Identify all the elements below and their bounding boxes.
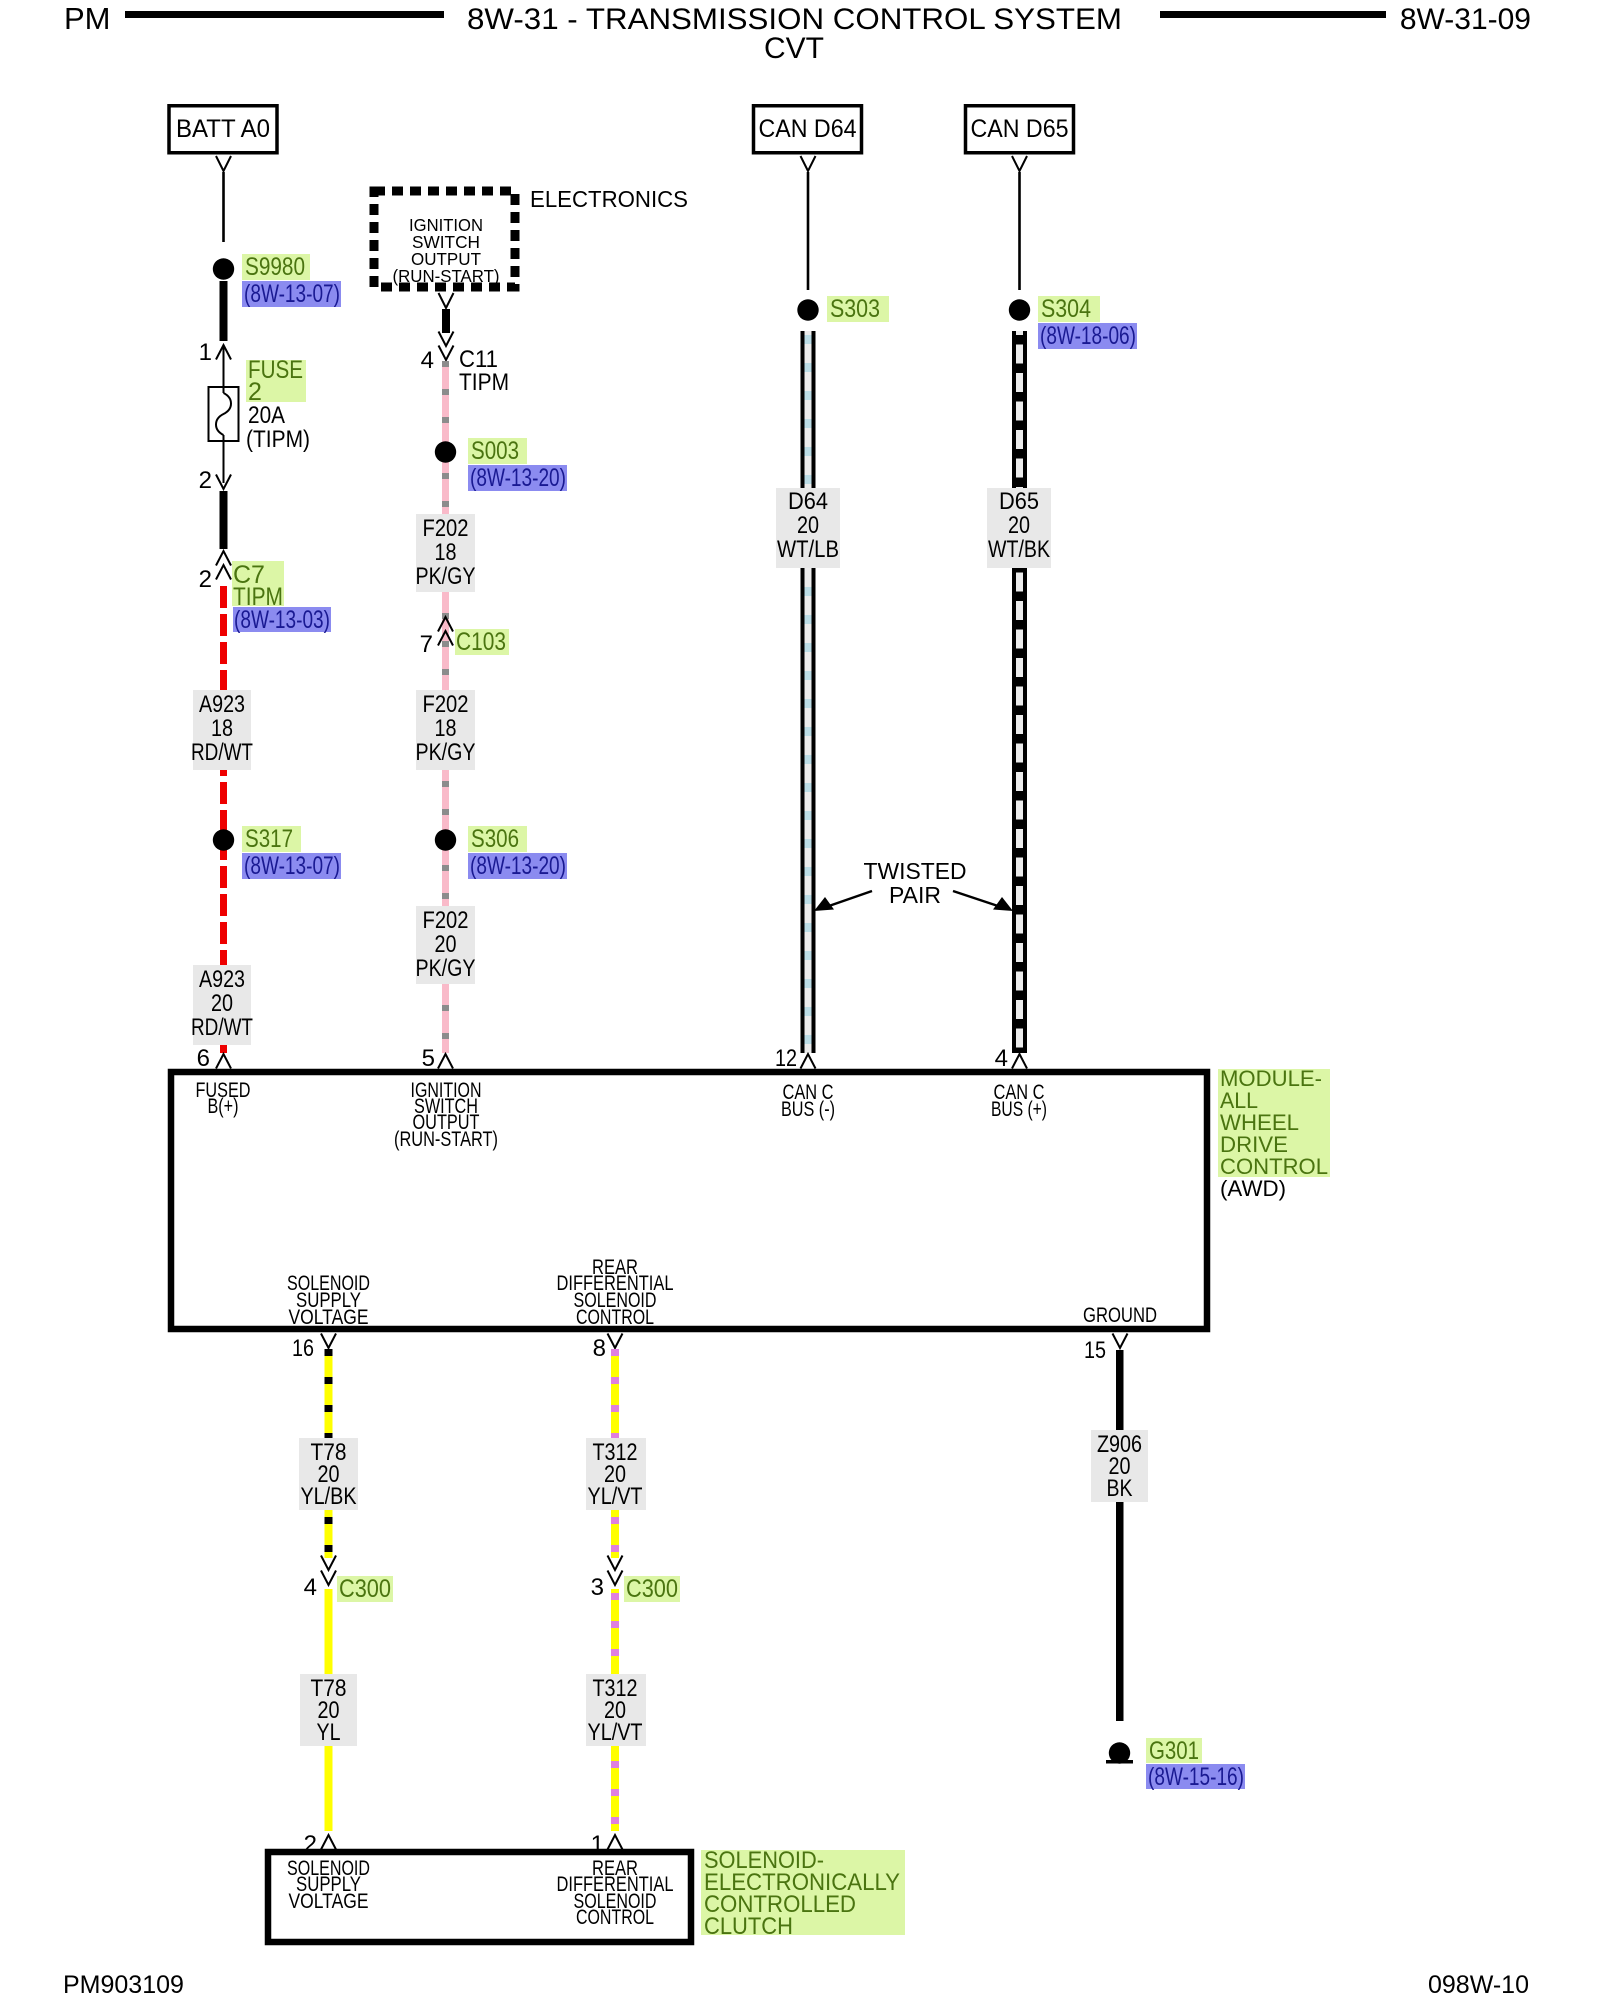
svg-text:S304: S304 xyxy=(1041,295,1091,323)
svg-text:TIPM: TIPM xyxy=(459,369,509,396)
svg-text:BK: BK xyxy=(1107,1475,1133,1502)
splice S304 xyxy=(1009,295,1137,350)
svg-text:YL/VT: YL/VT xyxy=(588,1483,643,1510)
svg-text:S306: S306 xyxy=(471,825,519,853)
svg-text:PK/GY: PK/GY xyxy=(416,739,476,766)
svg-text:5: 5 xyxy=(422,1045,435,1072)
label D65 20 WT/BK xyxy=(987,488,1051,568)
svg-text:YL/BK: YL/BK xyxy=(301,1483,357,1510)
svg-text:18: 18 xyxy=(435,715,457,742)
wire D64 20 WT/LB (white with light-blue tracer, twisted pair) xyxy=(801,331,816,1053)
svg-text:PM903109: PM903109 xyxy=(63,1971,184,1999)
svg-text:18: 18 xyxy=(435,539,457,566)
clutch name label SOLENOID- ELECTRONICALLY CONTROLLED CLUTCH xyxy=(701,1847,905,1940)
svg-text:S317: S317 xyxy=(245,825,293,853)
label A923 20 RD/WT xyxy=(191,965,253,1045)
svg-text:(RUN-START): (RUN-START) xyxy=(393,266,500,286)
connector CAN D65 xyxy=(966,106,1074,153)
svg-text:TWISTED: TWISTED xyxy=(864,858,967,884)
pin 4 CAN C BUS (+) xyxy=(995,1045,1027,1072)
svg-text:(AWD): (AWD) xyxy=(1220,1176,1286,1201)
svg-text:F202: F202 xyxy=(423,691,469,718)
splice S303 xyxy=(797,295,889,323)
svg-text:D64: D64 xyxy=(788,488,828,515)
svg-text:PK/GY: PK/GY xyxy=(416,563,476,590)
svg-text:G301: G301 xyxy=(1149,1737,1199,1765)
connector BATT A0 xyxy=(169,106,277,153)
svg-text:C300: C300 xyxy=(339,1575,391,1603)
svg-text:F202: F202 xyxy=(423,515,469,542)
svg-text:(8W-13-07): (8W-13-07) xyxy=(244,852,340,880)
connector C300 pin 4 xyxy=(304,1556,393,1604)
svg-text:VOLTAGE: VOLTAGE xyxy=(289,1306,369,1329)
pin 8 REAR DIFFERENTIAL SOLENOID CONTROL xyxy=(593,1334,623,1363)
pin 2 of fuse xyxy=(199,467,231,494)
label Z906 20 BK xyxy=(1091,1430,1148,1502)
ground G301 xyxy=(1106,1737,1245,1791)
pin 12 CAN C BUS (-) xyxy=(775,1045,816,1072)
pin 2 SOLENOID SUPPLY VOLTAGE (clutch) xyxy=(304,1831,336,1858)
splice S317 xyxy=(213,825,341,880)
label D64 20 WT/LB xyxy=(776,488,840,568)
wire BATT A0 down-lead xyxy=(216,156,231,242)
label F202 18 PK/GY (second) xyxy=(416,690,476,770)
label A923 18 RD/WT xyxy=(191,690,253,770)
svg-text:CVT: CVT xyxy=(764,32,824,65)
svg-text:20: 20 xyxy=(435,931,457,958)
splice S003 xyxy=(435,437,567,492)
footer xyxy=(63,1971,1529,1999)
svg-text:F202: F202 xyxy=(423,907,469,934)
splice S9980 xyxy=(213,253,341,308)
svg-text:20: 20 xyxy=(1008,512,1030,539)
svg-text:15: 15 xyxy=(1084,1337,1106,1364)
svg-text:WT/LB: WT/LB xyxy=(777,536,839,563)
svg-text:CAN D65: CAN D65 xyxy=(971,115,1069,143)
wire T312 20 YL/VT (lower) xyxy=(611,1589,619,1831)
svg-text:20: 20 xyxy=(211,990,233,1017)
svg-text:BUS (+): BUS (+) xyxy=(991,1098,1047,1121)
wire F202 PK/GY (pink with gray tracer) xyxy=(442,361,449,1053)
svg-text:A923: A923 xyxy=(199,691,245,718)
svg-text:YL/VT: YL/VT xyxy=(588,1719,643,1746)
svg-text:D65: D65 xyxy=(999,488,1039,515)
svg-text:S003: S003 xyxy=(471,437,519,465)
svg-text:098W-10: 098W-10 xyxy=(1428,1971,1529,1999)
svg-text:RD/WT: RD/WT xyxy=(191,739,253,766)
connector C103 pin 7 xyxy=(420,617,509,658)
wire CAN D65 down-lead xyxy=(1012,156,1027,290)
svg-text:3: 3 xyxy=(591,1574,604,1601)
splice S306 xyxy=(435,825,567,880)
electronics node: IGNITION SWITCH OUTPUT (RUN-START) xyxy=(374,186,688,287)
svg-text:RD/WT: RD/WT xyxy=(191,1014,253,1041)
pin 1 REAR DIFFERENTIAL SOLENOID CONTROL (clutch) xyxy=(591,1831,623,1858)
wire T78 YL/BK (yellow with black tracer) xyxy=(325,1349,333,1558)
wire fuse to connector C7 xyxy=(220,491,228,549)
connector C11 TIPM pin 4 xyxy=(421,332,509,397)
svg-text:2: 2 xyxy=(199,566,212,593)
pin 6 FUSED B(+) xyxy=(197,1045,231,1072)
wire S9980 to fuse pin 1 xyxy=(220,281,228,341)
solenoid: electronically controlled clutch (box) xyxy=(268,1852,691,1942)
connector CAN D64 xyxy=(754,106,862,153)
svg-text:CONTROL: CONTROL xyxy=(576,1306,654,1329)
svg-text:GROUND: GROUND xyxy=(1083,1304,1157,1327)
svg-text:B(+): B(+) xyxy=(208,1095,239,1118)
svg-text:(8W-13-20): (8W-13-20) xyxy=(470,852,566,880)
label F202 20 PK/GY xyxy=(416,906,476,984)
svg-text:(RUN-START): (RUN-START) xyxy=(394,1128,498,1151)
label F202 18 PK/GY xyxy=(416,514,476,592)
wire Z906 20 BK (black) xyxy=(1116,1350,1124,1721)
svg-text:VOLTAGE: VOLTAGE xyxy=(289,1890,369,1913)
svg-text:20: 20 xyxy=(797,512,819,539)
svg-text:BATT A0: BATT A0 xyxy=(176,115,270,143)
svg-text:12: 12 xyxy=(775,1045,797,1072)
connector C300 pin 3 xyxy=(591,1556,680,1604)
svg-text:16: 16 xyxy=(292,1335,314,1362)
svg-text:PAIR: PAIR xyxy=(889,882,941,908)
svg-text:(8W-13-07): (8W-13-07) xyxy=(244,280,340,308)
svg-text:8: 8 xyxy=(593,1335,606,1362)
wire T78 20 YL (solid yellow) xyxy=(325,1589,333,1831)
pin 15 GROUND xyxy=(1084,1334,1128,1365)
svg-text:CAN D64: CAN D64 xyxy=(759,115,857,143)
label T312 20 YL/VT xyxy=(586,1438,646,1510)
svg-text:4: 4 xyxy=(995,1045,1008,1072)
wire electronics to C11 xyxy=(439,293,454,333)
svg-text:2: 2 xyxy=(199,467,212,494)
svg-text:S303: S303 xyxy=(830,295,880,323)
label T78 20 YL xyxy=(300,1674,357,1746)
pin 1 of fuse xyxy=(199,339,231,366)
svg-text:7: 7 xyxy=(420,631,433,658)
svg-text:YL: YL xyxy=(317,1719,341,1746)
label T312 20 YL/VT (lower) xyxy=(586,1674,646,1746)
svg-text:BUS (-): BUS (-) xyxy=(781,1098,835,1121)
svg-text:6: 6 xyxy=(197,1045,210,1072)
module name label MODULE- ALL WHEEL DRIVE CONTROL (AWD) xyxy=(1218,1066,1330,1201)
label T78 20 YL/BK xyxy=(299,1438,358,1510)
pin 5 IGNITION SWITCH OUTPUT xyxy=(422,1045,453,1072)
wire A923 RD/WT (red with white tracer) xyxy=(220,580,227,1053)
svg-text:C300: C300 xyxy=(626,1575,678,1603)
module: ALL WHEEL DRIVE CONTROL (AWD) xyxy=(171,1072,1207,1329)
svg-text:(8W-13-03): (8W-13-03) xyxy=(234,606,330,634)
svg-text:8W-31-09: 8W-31-09 xyxy=(1400,3,1531,36)
svg-text:PM: PM xyxy=(64,1,111,36)
svg-text:(8W-13-20): (8W-13-20) xyxy=(470,464,566,492)
svg-text:18: 18 xyxy=(211,715,233,742)
svg-text:CLUTCH: CLUTCH xyxy=(704,1913,793,1940)
svg-text:(8W-18-06): (8W-18-06) xyxy=(1040,322,1136,350)
svg-text:C103: C103 xyxy=(456,628,506,656)
wire D65 20 WT/BK (white with black tracer, twisted pair) xyxy=(1012,331,1027,1053)
svg-text:PK/GY: PK/GY xyxy=(416,955,476,982)
svg-text:(8W-15-16): (8W-15-16) xyxy=(1148,1763,1244,1791)
header xyxy=(64,1,1531,65)
fuse FUSE 2 20A (TIPM) xyxy=(209,345,311,483)
svg-text:A923: A923 xyxy=(199,966,245,993)
twisted pair callout xyxy=(814,858,1013,911)
svg-text:WT/BK: WT/BK xyxy=(988,536,1050,563)
svg-text:4: 4 xyxy=(304,1574,317,1601)
svg-text:(TIPM): (TIPM) xyxy=(246,426,310,453)
svg-text:20A: 20A xyxy=(248,402,285,429)
wire T312 YL/VT (yellow with violet tracer) xyxy=(611,1349,619,1558)
connector C7 TIPM pin 2 xyxy=(199,551,331,634)
wire CAN D64 down-lead xyxy=(801,156,816,290)
svg-text:1: 1 xyxy=(199,339,212,366)
pin 16 SOLENOID SUPPLY VOLTAGE xyxy=(292,1334,336,1363)
svg-text:CONTROL: CONTROL xyxy=(576,1906,654,1929)
svg-text:4: 4 xyxy=(421,347,434,374)
svg-text:S9980: S9980 xyxy=(245,253,305,281)
svg-text:ELECTRONICS: ELECTRONICS xyxy=(530,186,688,212)
